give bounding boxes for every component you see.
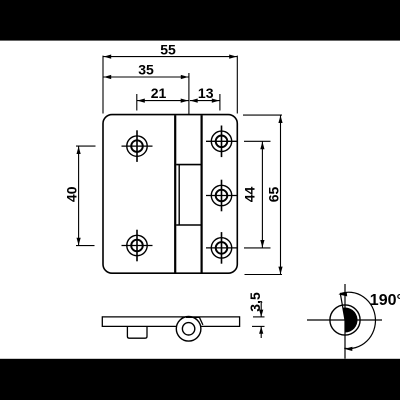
side view: mounting tab xyxy=(127,327,147,338)
hole bottom-right xyxy=(206,232,237,264)
bottom transparent band (renders black) xyxy=(0,359,400,400)
dimension 35 xyxy=(103,61,188,114)
knuckle left vertical line xyxy=(174,115,176,273)
svg-text:21: 21 xyxy=(151,85,167,101)
190-degree opening icon: radius line at 100 degrees xyxy=(340,293,345,320)
hinge body (front view rounded plate) xyxy=(103,115,237,274)
dimension 44 (right inner, vertical) xyxy=(241,141,270,248)
190-degree opening icon: arrow arc xyxy=(340,292,375,348)
svg-text:35: 35 xyxy=(138,61,154,77)
190-degree opening icon: bottom arrowhead xyxy=(344,347,352,351)
svg-text:40: 40 xyxy=(63,186,79,202)
dimension 55 xyxy=(103,41,237,113)
svg-text:55: 55 xyxy=(160,41,176,57)
190-degree opening icon: horizontal centerline xyxy=(307,319,382,321)
svg-text:13: 13 xyxy=(198,85,214,101)
svg-text:3,5: 3,5 xyxy=(247,292,263,312)
hole middle-right xyxy=(206,180,237,212)
side view: knuckle inner circle (pin) xyxy=(182,323,194,335)
190-degree opening icon: top arrowhead xyxy=(338,292,347,297)
top transparent band (renders black) xyxy=(0,0,400,41)
190-degree opening icon: vertical centerline xyxy=(344,284,346,359)
190-degree opening icon: filled 190-degree sector xyxy=(343,308,358,333)
dimension 40 (left, vertical) xyxy=(63,146,95,246)
knuckle divider top xyxy=(176,164,200,166)
knuckle middle-left inner line xyxy=(178,165,180,225)
190-degree opening icon: circle xyxy=(330,305,360,335)
dimension 13 xyxy=(190,85,220,111)
knuckle right vertical line xyxy=(201,115,203,273)
side view: left end cap xyxy=(101,316,103,327)
side view: leaf top edge xyxy=(102,316,239,318)
hole top-left xyxy=(122,130,153,162)
dimension 3,5 (plate thickness) xyxy=(247,292,265,338)
svg-text:65: 65 xyxy=(265,187,281,203)
side view: knuckle tangent reinforcement xyxy=(186,316,199,318)
side view: knuckle outer circle xyxy=(176,317,201,342)
side view: right end cap xyxy=(239,316,241,327)
side view: leaf wrap slash xyxy=(199,317,203,325)
svg-text:190°: 190° xyxy=(370,292,400,309)
side view: bottom edge right part xyxy=(201,325,240,327)
knuckle divider bottom xyxy=(176,224,200,226)
svg-text:44: 44 xyxy=(241,187,257,203)
dimension 21 xyxy=(137,85,189,111)
hole top-right xyxy=(206,126,237,158)
side view: bottom edge left part xyxy=(102,325,176,327)
hole bottom-left xyxy=(122,230,153,262)
dimension 65 (right outer, vertical) xyxy=(243,115,283,274)
